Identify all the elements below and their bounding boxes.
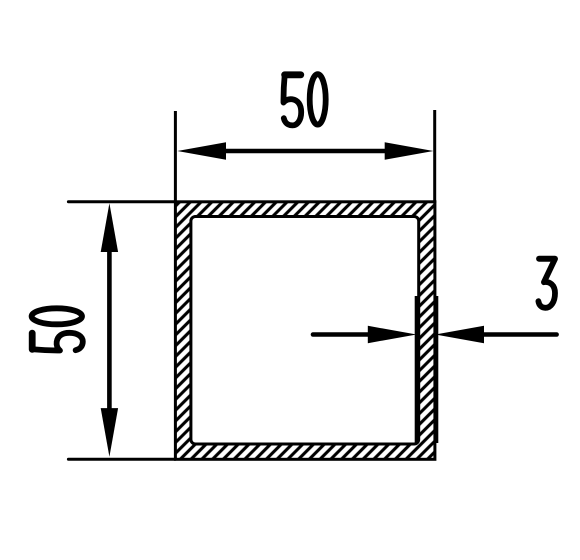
left dim top arrowhead <box>101 203 118 252</box>
wall dim outer arrowhead (points left) <box>435 326 484 343</box>
top dim text 50 <box>283 75 301 126</box>
wall dim text 3 <box>538 259 555 308</box>
top dimension line 50 <box>225 149 386 154</box>
extension line: bottom edge extended left (left 50 dim, bottom) <box>68 458 175 461</box>
tube inner bore (white) <box>191 217 419 445</box>
top dim right arrowhead <box>385 142 434 159</box>
left dim bottom arrowhead <box>101 408 118 457</box>
wall thickness dim: extension line at inner wall edge <box>415 296 418 443</box>
wall dim inner leader line <box>313 332 369 337</box>
extension line: left edge extended up (top 50 dim, left) <box>174 111 177 203</box>
tube outer edge <box>175 202 435 460</box>
extension line: right edge extended up (top 50 dim, right) <box>433 110 436 203</box>
left dim text 50 (rotated) <box>32 333 83 351</box>
wall dim inner arrowhead (points right) <box>368 326 417 343</box>
wall dim outer leader line <box>484 332 557 337</box>
tube wall hatched ring <box>175 202 435 460</box>
wall thickness dim: extension line at outer wall edge <box>435 296 438 443</box>
extension line: top edge extended left (left 50 dim, top) <box>68 200 175 203</box>
left dimension line 50 <box>107 251 112 409</box>
top dim left arrowhead <box>177 142 226 159</box>
tube inner edge <box>191 217 419 445</box>
